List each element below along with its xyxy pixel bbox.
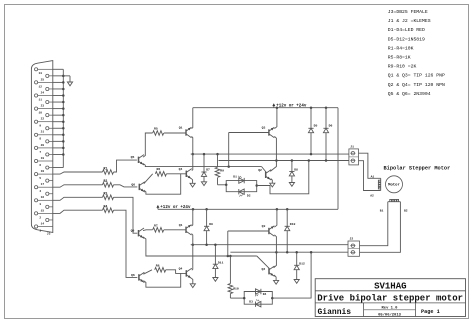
resistor R1 bbox=[103, 166, 114, 174]
svg-text:R6: R6 bbox=[157, 167, 161, 171]
motor M1 bbox=[386, 176, 403, 193]
svg-text:D6: D6 bbox=[329, 124, 333, 128]
transistor Q3 lower bbox=[262, 224, 275, 236]
wire R6 to Q4 base bbox=[166, 173, 186, 175]
svg-text:25: 25 bbox=[41, 78, 45, 81]
svg-text:SV1HAG: SV1HAG bbox=[374, 282, 406, 292]
svg-text:J3: J3 bbox=[47, 233, 51, 236]
svg-text:Q5 & Q6= 2N3904: Q5 & Q6= 2N3904 bbox=[388, 91, 431, 97]
svg-text:R3: R3 bbox=[104, 192, 108, 196]
svg-text:22: 22 bbox=[41, 118, 45, 121]
svg-text:Q2: Q2 bbox=[258, 168, 262, 172]
svg-text:D7: D7 bbox=[206, 168, 210, 172]
svg-text:Page 1: Page 1 bbox=[421, 309, 440, 315]
svg-text:8: 8 bbox=[39, 138, 41, 141]
svg-text:B1: B1 bbox=[380, 209, 384, 212]
svg-text:Rev 1.0: Rev 1.0 bbox=[382, 307, 399, 311]
svg-text:J1: J1 bbox=[350, 144, 354, 148]
title text date bbox=[378, 312, 402, 317]
wire led loop to row2 bbox=[257, 159, 310, 194]
wire pin 3 to R3 bbox=[53, 197, 103, 200]
resistor R3 bbox=[103, 192, 114, 200]
svg-text:+12v or +24v: +12v or +24v bbox=[160, 206, 191, 210]
transistor Q1 bbox=[179, 126, 192, 138]
resistor R9 bbox=[215, 153, 224, 185]
svg-text:Q3: Q3 bbox=[262, 224, 266, 228]
wire R3 to lower Q5 base bbox=[114, 197, 138, 233]
wire Q4 emitter to ground bbox=[190, 179, 195, 187]
wire coil B1 to J2 terminal1 bbox=[360, 202, 388, 246]
resistor R4 bbox=[103, 205, 114, 213]
power rail +12v lower bbox=[156, 205, 338, 211]
wire lower Q5 emitter to base line bbox=[143, 237, 257, 257]
ground symbol at bus bbox=[63, 76, 72, 86]
wire lower Q3 emitter to rail bbox=[274, 209, 277, 227]
resistor R5 bbox=[153, 127, 164, 136]
diode D8 bbox=[289, 159, 298, 186]
node row1 wire (out A1) bbox=[191, 153, 349, 155]
transistor Q6 bbox=[131, 182, 144, 192]
svg-text:23: 23 bbox=[41, 104, 45, 107]
wire Q3 emitter to rail bbox=[274, 108, 277, 129]
wire Q6 emitter stub bbox=[144, 174, 181, 194]
wire R2 to Q6 base bbox=[114, 185, 138, 187]
svg-text:J1 & J2 =KLEMES: J1 & J2 =KLEMES bbox=[388, 18, 431, 24]
led D4 bbox=[255, 289, 266, 297]
wire Q3 base to left bbox=[229, 132, 269, 134]
wire Q3 collector to row2 bbox=[274, 136, 276, 160]
svg-text:R9-R10 =2K: R9-R10 =2K bbox=[388, 64, 417, 70]
wire R5 to Q1 base bbox=[164, 132, 186, 134]
svg-text:D12: D12 bbox=[299, 262, 305, 266]
resistor R2 bbox=[103, 179, 114, 187]
svg-text:R5: R5 bbox=[154, 127, 158, 131]
connector J2 bbox=[348, 236, 360, 256]
svg-text:6: 6 bbox=[39, 164, 41, 167]
svg-text:Motor: Motor bbox=[388, 184, 400, 188]
wire Q6 collector to R6 bbox=[144, 174, 153, 184]
svg-text:16: 16 bbox=[41, 196, 45, 199]
wire base line to lower Q2 base bbox=[257, 256, 269, 271]
motor winding B coil bbox=[380, 199, 408, 212]
svg-text:B2: B2 bbox=[404, 209, 408, 212]
wire Q5 collector to R5 bbox=[143, 133, 153, 157]
wire base line to Q2 base bbox=[262, 167, 266, 175]
wire Q1 collector to node row1 bbox=[192, 136, 195, 155]
title text Giannis bbox=[318, 308, 352, 317]
svg-text:Q5: Q5 bbox=[131, 229, 135, 233]
wire lower Q1 emitter to rail bbox=[192, 209, 193, 226]
wire pin 2 to R4 bbox=[53, 210, 103, 213]
transistor Q3 bbox=[262, 126, 275, 138]
led indicator loop D3 D4 bbox=[243, 292, 274, 305]
wire coil B2 to J2 terminal2 bbox=[360, 202, 401, 253]
svg-text:Q4: Q4 bbox=[179, 167, 183, 171]
svg-text:Q2 & Q4= TIP 120 NPN: Q2 & Q4= TIP 120 NPN bbox=[388, 82, 445, 88]
led D3 bbox=[249, 299, 261, 307]
wire Q2 emitter to ground bbox=[270, 179, 275, 187]
wire lower Q3 base to left bbox=[228, 230, 269, 232]
svg-text:D1-D4=LED RED: D1-D4=LED RED bbox=[388, 27, 425, 33]
svg-text:11: 11 bbox=[39, 98, 43, 101]
wire R8 to lower Q4 base bbox=[166, 270, 187, 274]
svg-text:7: 7 bbox=[39, 151, 41, 154]
connector J1 bbox=[349, 144, 359, 165]
wire lower Q2 collector to row2 bbox=[274, 251, 278, 268]
svg-text:Q6: Q6 bbox=[131, 273, 135, 277]
diode D7 bbox=[201, 153, 210, 186]
wire Q3 base down to base line bbox=[228, 133, 230, 167]
svg-text:Drive bipolar stepper motor: Drive bipolar stepper motor bbox=[317, 294, 463, 304]
svg-text:+12v or +24v: +12v or +24v bbox=[276, 105, 307, 109]
wire lower Q6 emitter stub bbox=[143, 273, 180, 287]
wire lower Q4 collector to row1 bbox=[192, 245, 193, 271]
motor winding A coil bbox=[370, 175, 381, 197]
wire lower Q5 collector to R7 bbox=[143, 229, 153, 232]
svg-text:Q5: Q5 bbox=[131, 155, 135, 159]
title text page bbox=[421, 309, 440, 315]
node row2 wire (out A2) bbox=[219, 160, 349, 162]
svg-text:J2: J2 bbox=[350, 236, 354, 240]
svg-text:4: 4 bbox=[39, 190, 41, 193]
svg-text:D4: D4 bbox=[263, 293, 267, 296]
resistor R10 bbox=[228, 256, 239, 298]
svg-text:A2: A2 bbox=[370, 195, 374, 198]
ground bus wire bbox=[53, 69, 65, 167]
wire lower Q1 collector to row1 bbox=[192, 234, 195, 246]
svg-text:R2: R2 bbox=[104, 179, 108, 183]
svg-text:R1-R4=10K: R1-R4=10K bbox=[388, 45, 414, 51]
wire lower Q3 base down to base line bbox=[227, 231, 229, 256]
svg-text:3: 3 bbox=[39, 203, 41, 206]
wire J1 terminal1 to coil A1 bbox=[359, 153, 381, 178]
wire lower Q2 emitter to ground bbox=[274, 275, 279, 284]
diode D10 bbox=[285, 209, 296, 253]
svg-text:10: 10 bbox=[39, 112, 43, 115]
transistor Q6 lower bbox=[131, 272, 144, 282]
svg-text:14: 14 bbox=[41, 222, 45, 225]
transistor Q2 bbox=[258, 168, 271, 180]
diode D5 bbox=[308, 108, 317, 156]
svg-text:Q1: Q1 bbox=[179, 126, 183, 130]
diode D6 bbox=[323, 108, 332, 162]
wire R10 to led loop lower bbox=[230, 297, 244, 299]
svg-text:R9: R9 bbox=[220, 168, 224, 172]
transistor Q4 lower bbox=[179, 267, 192, 279]
svg-text:Bipolar Stepper Motor: Bipolar Stepper Motor bbox=[384, 165, 451, 171]
wire led loop to lower row2 bbox=[272, 251, 312, 298]
transistor Q5 lower bbox=[131, 228, 144, 238]
diode D9 bbox=[204, 209, 213, 246]
wire lower Q4 emitter to ground bbox=[190, 279, 195, 288]
wire lower Q6 collector to R8 bbox=[143, 270, 152, 274]
svg-text:A1: A1 bbox=[371, 175, 375, 178]
transistor Q2 lower bbox=[262, 266, 275, 276]
svg-text:D3: D3 bbox=[249, 301, 253, 304]
svg-text:J3=DB25 FEMALE: J3=DB25 FEMALE bbox=[388, 9, 428, 15]
svg-text:15: 15 bbox=[41, 209, 45, 212]
svg-text:17: 17 bbox=[41, 183, 45, 186]
svg-text:1: 1 bbox=[39, 229, 41, 232]
svg-text:21: 21 bbox=[41, 131, 45, 134]
wire R4 to lower Q6 base bbox=[114, 210, 138, 277]
svg-text:Q6: Q6 bbox=[131, 182, 135, 186]
parts list notes bbox=[388, 9, 445, 97]
wire rail to lower rail bbox=[337, 108, 339, 210]
svg-text:12: 12 bbox=[39, 85, 43, 88]
resistor R7 bbox=[153, 223, 164, 232]
diode D11 bbox=[213, 243, 224, 281]
wire Q2 collector to row2 bbox=[270, 159, 277, 171]
wire R7 to lower Q1 base bbox=[164, 229, 186, 231]
wire R9 to led loop bbox=[218, 184, 227, 186]
wire R1 to Q5 base bbox=[114, 160, 137, 172]
resistor R6 bbox=[155, 167, 166, 176]
svg-text:D5-D12=1N5819: D5-D12=1N5819 bbox=[388, 36, 425, 42]
led indicator loop D1 D2 bbox=[225, 181, 258, 192]
svg-text:Q1: Q1 bbox=[179, 223, 183, 227]
svg-text:D11: D11 bbox=[218, 261, 224, 265]
wire Q4 collector to row1 bbox=[192, 154, 193, 171]
transistor Q5 bbox=[131, 155, 144, 165]
connector J3 pins 1-25 bbox=[35, 68, 53, 233]
svg-text:R4: R4 bbox=[104, 205, 108, 209]
title text rev bbox=[382, 307, 399, 311]
connector J3 DB25 female body bbox=[31, 61, 52, 236]
svg-text:20: 20 bbox=[41, 144, 45, 147]
svg-text:R10: R10 bbox=[233, 287, 239, 291]
svg-text:R8: R8 bbox=[156, 263, 160, 267]
svg-text:Q3: Q3 bbox=[262, 126, 266, 130]
svg-text:D5: D5 bbox=[314, 124, 318, 128]
svg-text:D8: D8 bbox=[294, 167, 298, 171]
svg-text:9: 9 bbox=[39, 125, 41, 128]
wire lower Q3 collector to row2 bbox=[274, 235, 276, 252]
svg-text:Q2: Q2 bbox=[262, 267, 266, 271]
title block frame bbox=[315, 279, 465, 317]
svg-text:13: 13 bbox=[39, 72, 43, 75]
svg-text:2: 2 bbox=[39, 216, 41, 219]
wire Q5 emitter to Q2/Q3 base line bbox=[143, 164, 262, 168]
svg-text:Q1 & Q3= TIP 126 PNP: Q1 & Q3= TIP 126 PNP bbox=[388, 73, 445, 79]
svg-text:D1: D1 bbox=[233, 176, 237, 179]
wire Q1 emitter to rail bbox=[192, 108, 193, 129]
wire pin 5 to R1 bbox=[53, 172, 103, 174]
svg-text:D2: D2 bbox=[247, 194, 251, 197]
svg-text:R7: R7 bbox=[154, 223, 158, 227]
led D1 bbox=[233, 176, 244, 184]
node lower row2 wire (out B2) bbox=[230, 251, 348, 253]
power rail +12v upper bbox=[193, 103, 338, 109]
svg-text:24: 24 bbox=[41, 91, 45, 94]
svg-text:R5-R8=1K: R5-R8=1K bbox=[388, 55, 411, 61]
svg-text:05/06/2013: 05/06/2013 bbox=[378, 312, 402, 317]
svg-text:R1: R1 bbox=[104, 166, 108, 170]
led D2 bbox=[239, 189, 251, 197]
transistor Q4 bbox=[179, 167, 192, 179]
title text drive bipolar stepper motor bbox=[317, 294, 463, 304]
svg-text:Q4: Q4 bbox=[179, 267, 183, 271]
svg-text:18: 18 bbox=[41, 170, 45, 173]
node lower row1 wire (out B1) bbox=[191, 244, 349, 246]
svg-text:Giannis: Giannis bbox=[318, 308, 352, 317]
text bipolar stepper motor bbox=[384, 165, 451, 171]
diode D12 bbox=[294, 251, 305, 283]
wire J1 terminal2 to coil A2 bbox=[359, 161, 381, 191]
transistor Q1 lower bbox=[179, 223, 192, 235]
svg-text:D10: D10 bbox=[290, 222, 296, 226]
wire pin 4 to R2 bbox=[53, 185, 103, 187]
svg-text:D9: D9 bbox=[209, 222, 213, 226]
resistor R8 bbox=[155, 263, 166, 272]
svg-text:5: 5 bbox=[39, 177, 41, 180]
title text SV1HAG bbox=[374, 282, 406, 292]
svg-text:19: 19 bbox=[41, 157, 45, 160]
